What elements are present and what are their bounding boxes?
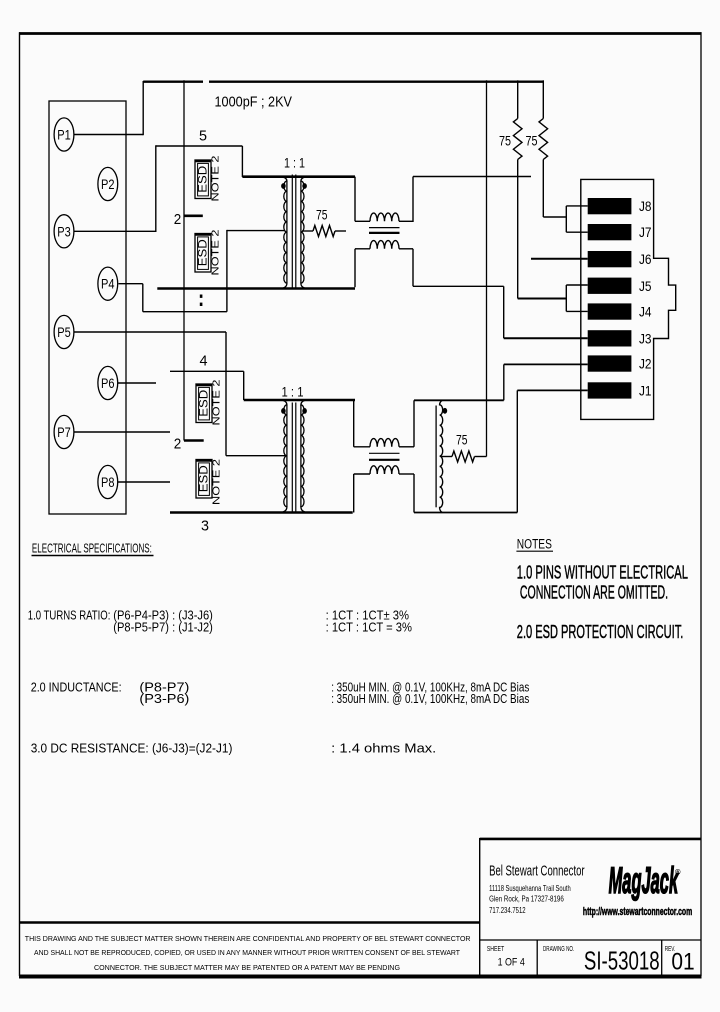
wire to J2	[503, 364, 505, 400]
T1 primary top lead	[242, 175, 355, 178]
svg-text:2: 2	[174, 212, 182, 228]
pin J5	[588, 278, 632, 294]
wire P3 to node 5	[75, 230, 156, 232]
svg-text:P8: P8	[101, 474, 115, 490]
T1 primary polarity dot	[281, 183, 286, 189]
L2 lower leads	[354, 473, 370, 475]
node 5 wire	[156, 145, 243, 147]
T2 top lead	[244, 399, 355, 402]
svg-text:P1: P1	[57, 127, 71, 143]
J8/J7 tie bracket	[565, 206, 567, 232]
L1 upper leads	[355, 220, 370, 222]
L1 upper winding	[370, 213, 399, 221]
svg-text:3: 3	[201, 519, 209, 535]
pin P1	[54, 118, 74, 151]
L2 lower winding	[370, 466, 399, 474]
border frame bottom	[19, 975, 702, 979]
svg-text:SI-53018: SI-53018	[584, 946, 660, 976]
wire L1 out up	[412, 177, 414, 223]
svg-text:CONNECTOR. THE SUBJECT MATTER: CONNECTOR. THE SUBJECT MATTER MAY BE PAT…	[94, 963, 400, 972]
R3 top lead	[517, 80, 519, 118]
svg-text:NOTES: NOTES	[517, 537, 552, 552]
svg-text:1000pF ; 2KV: 1000pF ; 2KV	[215, 94, 293, 110]
wire P8 stub	[118, 481, 170, 483]
svg-text:NOTE 2: NOTE 2	[212, 379, 223, 426]
svg-text:11118 Susquehanna Trail South: 11118 Susquehanna Trail South	[489, 884, 571, 893]
svg-text:3.0 DC RESISTANCE: (J6-J3)=(J2: 3.0 DC RESISTANCE: (J6-J3)=(J2-J1)	[31, 742, 233, 756]
L1 core lines	[369, 227, 400, 229]
resistor R4 75ohm	[539, 119, 548, 160]
svg-text:1.0 PINS WITHOUT ELECTRICAL: 1.0 PINS WITHOUT ELECTRICAL	[517, 563, 688, 583]
T1 bottom lead	[157, 287, 355, 290]
svg-text:J3: J3	[639, 331, 652, 346]
T2 primary polarity dot	[281, 408, 286, 414]
R1 right lead stub	[335, 230, 346, 232]
svg-text:J6: J6	[639, 252, 652, 267]
node 4 wire	[170, 370, 244, 372]
svg-text:®: ®	[675, 868, 681, 877]
svg-text:P5: P5	[57, 324, 71, 340]
svg-text:DRAWING NO.: DRAWING NO.	[543, 944, 574, 953]
J5/J4 tie bracket	[565, 285, 567, 311]
wire P7 stub	[75, 431, 171, 433]
T2 bottom lead	[170, 511, 353, 514]
svg-text:ESD: ESD	[198, 390, 210, 417]
svg-text:: 350uH MIN. @ 0.1V, 100KHz, 8: : 350uH MIN. @ 0.1V, 100KHz, 8mA DC Bias	[331, 692, 529, 706]
svg-text:THIS DRAWING AND THE SUBJECT M: THIS DRAWING AND THE SUBJECT MATTER SHOW…	[25, 934, 471, 943]
T1 core	[291, 175, 293, 290]
wire to J3	[503, 286, 505, 338]
pin J3	[588, 330, 632, 346]
wire L2 up out	[413, 400, 415, 447]
svg-text:NOTE 2: NOTE 2	[211, 155, 222, 202]
T1 primary winding	[280, 177, 287, 289]
pin P5	[54, 315, 74, 348]
svg-text:01: 01	[671, 949, 694, 976]
L2 upper leads	[354, 446, 370, 448]
ESD protection U2 (note 2)	[195, 234, 212, 273]
P-header box	[49, 101, 126, 514]
pin J4	[588, 303, 632, 319]
svg-text:75: 75	[316, 207, 328, 223]
wire P6 stub	[118, 382, 156, 384]
svg-text:2.0 INDUCTANCE:: 2.0 INDUCTANCE:	[31, 681, 122, 695]
pin P2	[98, 167, 118, 200]
svg-text:75: 75	[456, 432, 468, 448]
svg-text:CONNECTION ARE OMITTED.: CONNECTION ARE OMITTED.	[520, 583, 668, 603]
svg-text:J7: J7	[639, 225, 652, 240]
border frame right	[700, 32, 702, 976]
wire T2 top to L2	[353, 400, 355, 447]
wire P5 to lower center tap	[75, 331, 227, 333]
T1 label-1 colon mark	[200, 295, 203, 298]
svg-text:J8: J8	[639, 199, 652, 214]
pin J1	[588, 382, 632, 398]
svg-text:75: 75	[499, 133, 511, 149]
svg-text:717.234.7512: 717.234.7512	[489, 906, 526, 915]
svg-text:P4: P4	[101, 276, 115, 292]
resistor R5 75ohm	[452, 451, 475, 462]
node 2 stub upper	[184, 215, 203, 218]
L3 core line	[435, 406, 437, 508]
L2 core lines	[369, 452, 400, 454]
svg-text:ESD: ESD	[197, 166, 209, 193]
svg-text:NOTE 2: NOTE 2	[211, 229, 222, 276]
T1 secondary polarity dot	[302, 183, 307, 189]
border frame left	[19, 32, 21, 976]
capacitor bus vertical	[486, 80, 488, 456]
svg-text:J5: J5	[639, 279, 652, 294]
svg-text:P2: P2	[101, 176, 115, 192]
R5 right lead	[475, 456, 487, 458]
wire T2 bottom to L2	[353, 474, 355, 513]
wire P1 to top bus	[75, 134, 144, 136]
svg-text:P3: P3	[57, 223, 71, 239]
L1 lower winding	[370, 241, 399, 249]
wire to J1	[516, 390, 518, 512]
svg-text:SHEET: SHEET	[487, 944, 505, 953]
svg-text:: 1.4 ohms Max.: : 1.4 ohms Max.	[331, 742, 436, 756]
wire T1 sec bottom to L1	[354, 249, 356, 287]
svg-text:4: 4	[200, 353, 208, 369]
pin J2	[588, 355, 632, 371]
T2 primary winding	[280, 400, 287, 513]
R4 bottom wire to J8/J7 tie	[542, 160, 544, 218]
svg-text:: 1CT : 1CT = 3%: : 1CT : 1CT = 3%	[326, 621, 412, 635]
svg-text:P6: P6	[101, 375, 115, 391]
wire P4 to primary center tap	[119, 283, 143, 285]
svg-text:AND SHALL NOT BE REPRODUCED, C: AND SHALL NOT BE REPRODUCED, COPIED, OR …	[34, 948, 460, 957]
svg-text:NOTE 2: NOTE 2	[212, 458, 223, 505]
svg-text:P7: P7	[57, 424, 71, 440]
svg-text:75: 75	[526, 133, 538, 149]
R5 left lead	[441, 456, 452, 458]
svg-text:J4: J4	[639, 305, 652, 320]
wire top bus left of capacitor gap	[143, 81, 203, 83]
svg-text:5: 5	[199, 128, 207, 144]
pin P8	[98, 465, 118, 498]
pin P6	[98, 366, 118, 399]
R3 bottom wire to J5/J4 tie	[517, 160, 519, 299]
T2 core	[291, 403, 293, 514]
svg-text:ESD: ESD	[197, 239, 209, 266]
svg-text:1 : 1: 1 : 1	[282, 384, 304, 400]
svg-text:J1: J1	[639, 384, 652, 399]
svg-text:Bel Stewart Connector: Bel Stewart Connector	[489, 864, 585, 880]
inductor L3 winding	[440, 400, 443, 512]
ESD protection U3 (note 2)	[196, 384, 213, 423]
svg-text:MagJack: MagJack	[609, 859, 679, 901]
vertical bus from top line	[183, 80, 185, 440]
pin P7	[54, 415, 74, 448]
T2 secondary polarity dot	[302, 408, 307, 414]
pin J8	[588, 198, 632, 214]
R1 center tap lead	[302, 230, 313, 232]
ESD protection U4 (note 2)	[196, 460, 213, 499]
svg-text:J2: J2	[639, 357, 652, 372]
svg-text:ELECTRICAL SPECIFICATIONS:: ELECTRICAL SPECIFICATIONS:	[32, 542, 152, 556]
R4 top lead	[542, 80, 544, 118]
title block outline	[480, 838, 701, 841]
L1 lower leads	[355, 248, 370, 250]
svg-text:2.0 ESD PROTECTION CIRCUIT.: 2.0 ESD PROTECTION CIRCUIT.	[517, 622, 684, 642]
pin J6	[588, 251, 632, 267]
wire J6 stub	[531, 258, 588, 260]
svg-text:http://www.stewartconnector.co: http://www.stewartconnector.com	[583, 906, 692, 918]
L3 polarity dot	[443, 408, 448, 414]
border frame top	[19, 32, 702, 35]
svg-text:1 OF 4: 1 OF 4	[498, 957, 525, 969]
svg-text:(P3-P6): (P3-P6)	[139, 692, 189, 706]
svg-text:Glen Rock, Pa 17327-8196: Glen Rock, Pa 17327-8196	[489, 894, 564, 903]
wire T1 sec top to L1	[354, 177, 356, 222]
pin P3	[54, 215, 74, 248]
bottom lead right segment	[414, 512, 517, 514]
pin P4	[98, 267, 118, 300]
wire L1 lower out	[412, 249, 414, 286]
wire L2 lower out	[413, 474, 415, 513]
svg-text:1.0 TURNS RATIO:: 1.0 TURNS RATIO:	[28, 609, 111, 623]
node 2 stub lower	[184, 439, 204, 442]
T2 secondary winding	[301, 400, 308, 513]
resistor R3 75ohm	[513, 119, 522, 160]
legal text box	[19, 921, 480, 923]
svg-text:(P8-P5-P7) : (J1-J2): (P8-P5-P7) : (J1-J2)	[113, 621, 213, 635]
svg-text:ESD: ESD	[198, 465, 210, 492]
resistor R1 75ohm	[313, 226, 335, 237]
pin J7	[588, 224, 632, 240]
T1 primary center tap wire	[227, 230, 285, 232]
title block dividers	[536, 940, 538, 975]
T1 secondary winding	[301, 177, 308, 289]
RJ45 jack outline	[581, 179, 676, 419]
ESD protection U1 (note 2)	[195, 160, 212, 199]
svg-text:1 : 1: 1 : 1	[284, 155, 305, 171]
svg-text:2: 2	[174, 437, 182, 453]
capacitor C1 gap segment / top bus right	[209, 81, 543, 83]
L2 upper winding	[370, 439, 399, 447]
